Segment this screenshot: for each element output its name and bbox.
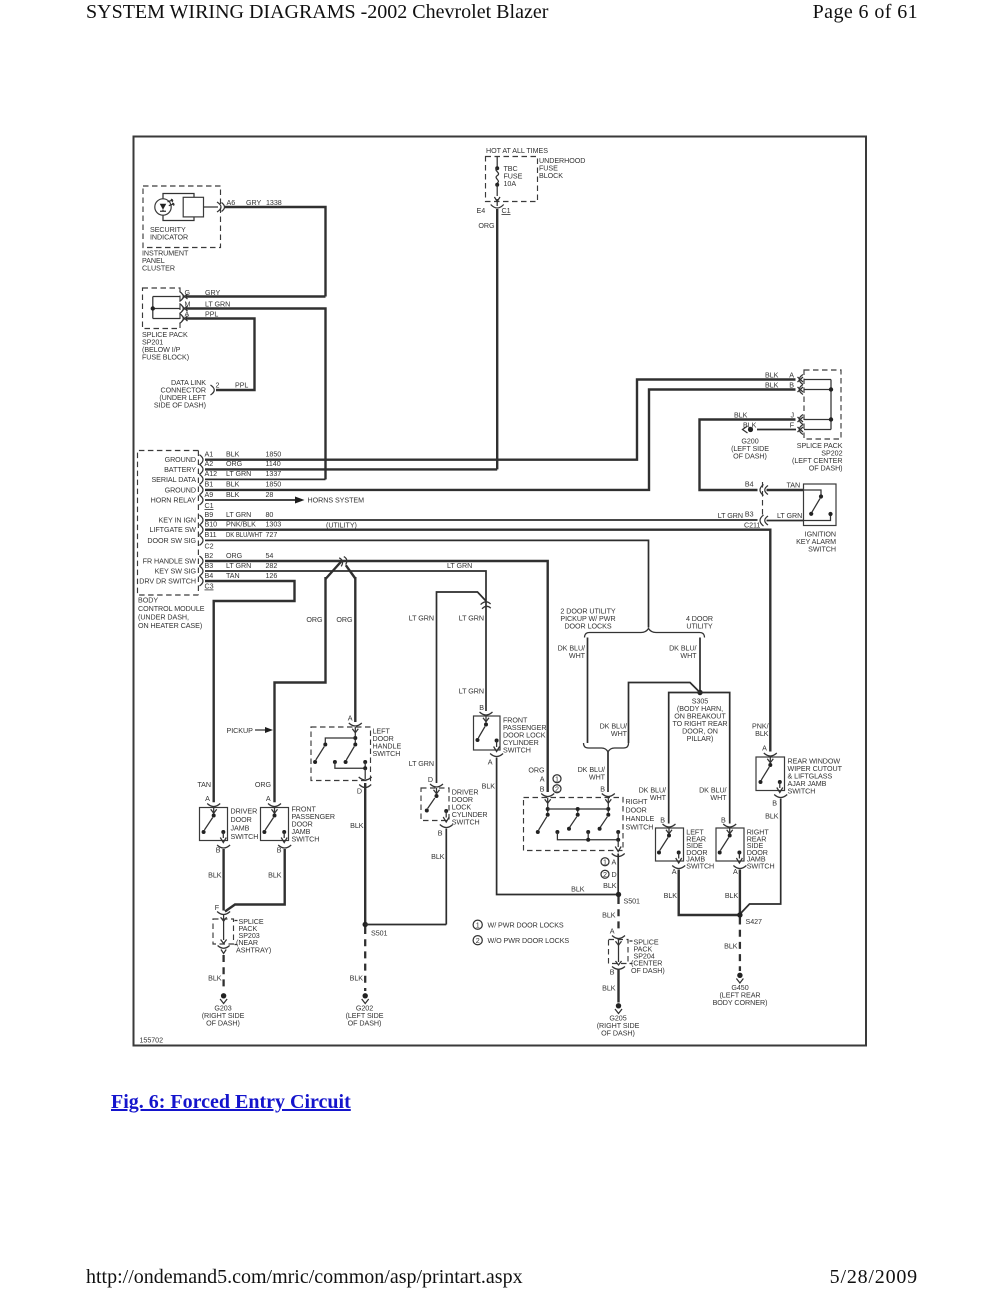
driver door lock cylinder switch pin D — [428, 776, 443, 794]
svg-text:OF DASH): OF DASH) — [348, 1019, 382, 1027]
S305 label — [672, 698, 727, 744]
svg-text:A: A — [205, 795, 210, 803]
BCM pin arc A9 — [200, 495, 204, 505]
svg-text:D: D — [612, 871, 617, 879]
svg-text:BLK: BLK — [765, 381, 779, 389]
svg-text:B3: B3 — [205, 562, 214, 570]
svg-text:BLK: BLK — [603, 882, 617, 890]
wire DK BLU/WHT S305 to right rear jamb — [700, 693, 730, 824]
wire label DK BLU/WHT 4-door — [669, 645, 697, 661]
front passenger door jamb switch label — [292, 806, 335, 844]
instrument panel cluster dashed box — [143, 186, 221, 248]
svg-text:B: B — [479, 704, 484, 712]
svg-text:727: 727 — [266, 531, 278, 539]
svg-text:SWITCH: SWITCH — [292, 836, 320, 844]
svg-text:W/O PWR DOOR LOCKS: W/O PWR DOOR LOCKS — [488, 937, 570, 945]
svg-text:A: A — [789, 371, 794, 379]
DLC pin 2 — [211, 381, 220, 395]
svg-text:TAN: TAN — [787, 482, 801, 490]
svg-text:PPL: PPL — [235, 381, 248, 389]
svg-text:BATTERY: BATTERY — [164, 466, 196, 474]
driver door lock cylinder switch dashed box — [421, 788, 449, 821]
svg-text:SWITCH: SWITCH — [686, 863, 714, 871]
wire TAN C211 to key alarm switch — [767, 489, 805, 491]
wire BLK S501 to G202 dashed — [364, 927, 366, 991]
wire BLK S501 to SP204 dashed — [617, 897, 619, 933]
wire DK BLU/WHT S305 to brace2 — [629, 683, 701, 744]
svg-text:B2: B2 — [205, 552, 214, 560]
left rear side door jamb label — [686, 829, 714, 871]
svg-text:2: 2 — [603, 871, 607, 879]
BCM pin arc A12 — [200, 474, 204, 484]
svg-text:KEY SW SIG: KEY SW SIG — [155, 568, 197, 576]
svg-text:A2: A2 — [205, 460, 214, 468]
rear window wiper cutout contacts — [759, 757, 783, 793]
svg-text:BLK: BLK — [482, 783, 496, 791]
svg-text:BLK: BLK — [208, 872, 222, 880]
BCM signal labels — [139, 456, 196, 585]
svg-text:A: A — [612, 859, 617, 867]
wire LT GRN B9 to C211 B3 — [205, 519, 758, 521]
svg-text:B10: B10 — [205, 521, 218, 529]
wire BLK left rear jamb A to S427 — [679, 870, 740, 916]
svg-text:D: D — [428, 776, 433, 784]
svg-text:A12: A12 — [205, 470, 218, 478]
splice pack SP203 dashed box — [213, 919, 234, 944]
splice symbol on B3 — [481, 602, 491, 609]
svg-text:B4: B4 — [745, 480, 754, 488]
connector pin A6 — [217, 202, 225, 212]
wire BLK A1 to SP202 A — [205, 380, 796, 460]
svg-text:1: 1 — [476, 921, 480, 929]
BCM pin arc A2 — [200, 464, 204, 474]
svg-text:1303: 1303 — [266, 521, 282, 529]
svg-text:BLK: BLK — [765, 813, 779, 821]
svg-text:M: M — [185, 300, 191, 308]
legend option 2 — [473, 936, 569, 945]
left door handle switch pin D — [357, 777, 372, 796]
svg-text:SWITCH: SWITCH — [626, 824, 654, 832]
wire ORG A2 row — [205, 468, 497, 470]
C211 pin B3 — [745, 510, 768, 526]
svg-text:PICKUP: PICKUP — [227, 727, 254, 735]
ground G200 — [743, 426, 754, 433]
left rear side door jamb pin A — [672, 866, 685, 877]
svg-text:ON HEATER CASE): ON HEATER CASE) — [138, 622, 202, 630]
rear window wiper cutout switch pin A — [762, 745, 777, 763]
splice pack SP204 label — [630, 939, 665, 976]
svg-text:A: A — [540, 776, 545, 784]
svg-text:LT GRN: LT GRN — [409, 760, 434, 768]
2 door utility label — [560, 608, 616, 631]
right door handle switch pin ORG arc — [541, 794, 554, 804]
svg-text:WHT: WHT — [589, 774, 606, 782]
svg-text:A: A — [266, 795, 271, 803]
svg-text:SIDE OF DASH): SIDE OF DASH) — [154, 402, 206, 410]
SP202 pin A — [789, 371, 803, 384]
security indicator LED — [155, 199, 174, 215]
front passenger door lock cylinder switch box — [474, 716, 501, 750]
svg-text:SWITCH: SWITCH — [452, 819, 480, 827]
wire LT GRN jog to driver lock cylinder — [437, 592, 487, 783]
front passenger lock cylinder label — [503, 717, 546, 755]
svg-text:54: 54 — [266, 552, 274, 560]
svg-text:FUSE BLOCK): FUSE BLOCK) — [142, 354, 189, 362]
splice S501 right — [616, 892, 640, 906]
left door handle switch pin A — [348, 715, 362, 733]
svg-text:PPL: PPL — [205, 310, 218, 318]
svg-text:LT GRN: LT GRN — [226, 562, 251, 570]
svg-text:BLK: BLK — [602, 912, 616, 920]
driver door jamb switch pin A — [205, 795, 220, 813]
svg-text:SWITCH: SWITCH — [231, 833, 259, 841]
splice pack SP203 label — [235, 918, 272, 955]
brace merge to right door handle — [584, 743, 629, 752]
body control module dashed box — [138, 451, 199, 596]
BCM circuit numbers — [266, 451, 282, 580]
pin label C1 underlined — [502, 207, 511, 215]
svg-text:RIGHT: RIGHT — [626, 798, 649, 806]
svg-text:DK BLU/WHT: DK BLU/WHT — [226, 531, 263, 539]
diagram frame — [134, 137, 867, 1046]
SP202 pin B — [789, 381, 803, 394]
svg-text:1338: 1338 — [266, 199, 282, 207]
right door handle switch label — [626, 798, 655, 832]
wire label DK BLU/WHT left rear — [639, 787, 667, 803]
svg-text:LT GRN: LT GRN — [777, 512, 802, 520]
wire LT GRN A12 row — [205, 478, 326, 480]
wire LT GRN B3 to front passenger lock cylinder — [205, 571, 486, 711]
driver door lock cylinder switch contacts — [425, 788, 449, 822]
ground G450 — [736, 973, 743, 983]
svg-text:HANDLE: HANDLE — [626, 815, 655, 823]
driver door jamb switch box — [200, 808, 228, 841]
wire BLK SP202 F to G200 — [757, 429, 796, 431]
svg-text:OF DASH): OF DASH) — [733, 453, 767, 461]
right door handle switch pin B arc — [600, 786, 615, 804]
ground G202 — [362, 993, 369, 1003]
svg-text:BLK: BLK — [350, 975, 364, 983]
svg-text:2: 2 — [216, 381, 220, 389]
BCM pin arc B9 — [200, 515, 204, 525]
right door handle switch pin D — [601, 854, 625, 880]
wire DK BLU/WHT S305 to left rear jamb — [669, 693, 700, 824]
svg-text:LT GRN: LT GRN — [447, 562, 472, 570]
svg-text:A: A — [762, 745, 767, 753]
svg-text:BLOCK: BLOCK — [539, 172, 563, 180]
svg-text:B: B — [772, 800, 777, 808]
right rear side door jamb switch box — [716, 828, 744, 861]
driver door jamb switch contacts — [202, 808, 227, 843]
svg-text:LT GRN: LT GRN — [226, 511, 251, 519]
svg-text:GROUND: GROUND — [165, 486, 196, 494]
wire to pin A6 — [204, 206, 219, 208]
svg-text:80: 80 — [266, 511, 274, 519]
svg-text:1850: 1850 — [266, 481, 282, 489]
wire label GRY 1338 — [246, 199, 282, 207]
svg-text:PNK/BLK: PNK/BLK — [226, 521, 256, 529]
svg-text:B: B — [540, 786, 545, 794]
svg-text:LT GRN: LT GRN — [459, 615, 484, 623]
BCM pin arc B11 — [200, 535, 204, 545]
svg-text:282: 282 — [266, 562, 278, 570]
BCM pin arc B1 — [200, 485, 204, 495]
driver door lock cylinder switch label — [452, 789, 488, 827]
svg-text:WHT: WHT — [611, 730, 628, 738]
svg-text:B: B — [721, 817, 726, 825]
svg-text:155702: 155702 — [140, 1037, 164, 1045]
svg-text:PILLAR): PILLAR) — [687, 735, 714, 743]
svg-text:BODY CORNER): BODY CORNER) — [713, 999, 768, 1007]
wire ORG branch to front passenger jamb switch — [275, 577, 326, 802]
wire DK BLU/WHT brace2 to right door handle B — [607, 752, 609, 792]
svg-text:WHT: WHT — [650, 794, 667, 802]
svg-text:SERIAL DATA: SERIAL DATA — [151, 476, 196, 484]
BCM pin arc B10 — [200, 525, 204, 535]
rear window wiper cutout switch box — [756, 757, 785, 791]
svg-text:BLK: BLK — [226, 491, 240, 499]
SP201 pin G — [180, 289, 191, 302]
svg-text:B: B — [216, 847, 221, 855]
brace split B11 — [585, 629, 705, 638]
svg-text:S501: S501 — [624, 898, 641, 906]
svg-text:ORG: ORG — [478, 222, 495, 230]
svg-text:10A: 10A — [504, 180, 517, 188]
svg-text:SWITCH: SWITCH — [747, 863, 775, 871]
wire BLK passenger jamb B to SP203 — [225, 849, 285, 912]
svg-text:ORG: ORG — [336, 616, 353, 624]
svg-text:2: 2 — [476, 937, 480, 945]
wire BLK SP204 to G205 — [617, 970, 619, 1003]
svg-text:OF DASH): OF DASH) — [206, 1019, 240, 1027]
svg-text:F: F — [215, 904, 220, 912]
wire BLK driver jamb B to SP203 — [222, 849, 224, 911]
wire ORG branch to left door handle switch — [354, 577, 356, 722]
SP202 pin J — [790, 411, 803, 424]
svg-text:B: B — [660, 817, 665, 825]
wire BLK S427 to G450 dashed — [739, 918, 741, 972]
svg-text:SWITCH: SWITCH — [373, 750, 401, 758]
driver door jamb switch label — [231, 808, 259, 842]
BCM right edge dashed — [197, 451, 199, 596]
svg-text:(UNDER DASH,: (UNDER DASH, — [138, 614, 189, 622]
front passenger door jamb switch pin B — [277, 845, 291, 855]
svg-text:DOOR LOCKS: DOOR LOCKS — [564, 623, 611, 631]
svg-text:B1: B1 — [205, 481, 214, 489]
ground G205 — [615, 1003, 622, 1013]
wire PPL SP201 A to DLC pin 2 — [186, 319, 255, 391]
wire BLK driver lock cylinder B to S501 — [445, 829, 447, 925]
svg-text:A: A — [733, 868, 738, 876]
svg-text:W/ PWR DOOR LOCKS: W/ PWR DOOR LOCKS — [488, 922, 564, 930]
svg-text:SWITCH: SWITCH — [503, 747, 531, 755]
wire BLK A9 horn relay — [205, 499, 295, 501]
wire label DK BLU/WHT right rear — [699, 787, 727, 803]
wire PNK/BLK B10 to wiper cutout switch — [205, 530, 770, 752]
left rear side door jamb contacts — [657, 828, 682, 863]
svg-text:LT GRN: LT GRN — [459, 688, 484, 696]
legend option 1 — [473, 920, 564, 929]
svg-text:C1: C1 — [502, 207, 511, 215]
svg-text:SWITCH: SWITCH — [788, 788, 816, 796]
svg-text:ASHTRAY): ASHTRAY) — [236, 947, 271, 955]
svg-text:C1: C1 — [205, 502, 214, 510]
svg-text:28: 28 — [266, 491, 274, 499]
BCM connector group label C2 — [205, 542, 214, 550]
svg-text:J: J — [790, 411, 794, 419]
svg-text:ORG: ORG — [255, 781, 272, 789]
svg-text:B: B — [438, 830, 443, 838]
wire ORG B2 to right door handle switch — [205, 561, 548, 792]
svg-text:1: 1 — [555, 775, 559, 783]
svg-text:BLK: BLK — [226, 481, 240, 489]
svg-text:E4: E4 — [477, 207, 486, 215]
right rear side door jamb switch pin B — [721, 817, 736, 834]
svg-text:C211: C211 — [744, 521, 760, 529]
svg-text:F: F — [790, 421, 795, 429]
rear window wiper cutout pin B — [772, 795, 787, 808]
svg-text:FR HANDLE SW: FR HANDLE SW — [143, 558, 197, 566]
wire DK BLU/WHT B11 to brace — [205, 540, 649, 627]
svg-text:1140: 1140 — [266, 460, 281, 468]
wire label DK BLU/WHT to pin B — [578, 766, 606, 782]
right door handle switch internals — [536, 798, 621, 852]
svg-text:LT GRN: LT GRN — [409, 615, 434, 623]
svg-text:BLK: BLK — [725, 892, 739, 900]
svg-text:ORG: ORG — [306, 616, 323, 624]
svg-text:C2: C2 — [205, 542, 214, 550]
SP204 internal wire — [612, 940, 625, 969]
ignition key alarm switch contacts — [804, 490, 833, 521]
svg-text:B: B — [600, 786, 605, 794]
SP201 internal bus — [151, 297, 180, 319]
svg-text:B: B — [610, 969, 615, 977]
wire label DK BLU/WHT mid — [600, 723, 628, 739]
C211 label underlined — [744, 521, 760, 529]
BCM connector group label C3 underlined — [205, 582, 214, 590]
svg-text:BLK: BLK — [734, 411, 748, 419]
wire BLK left door handle D to S501 — [364, 783, 366, 925]
wire GRY A6 to SP201 G — [225, 207, 326, 297]
svg-text:ORG: ORG — [226, 552, 243, 560]
svg-text:B3: B3 — [745, 510, 754, 518]
svg-text:A: A — [672, 868, 677, 876]
svg-text:OF DASH): OF DASH) — [601, 1029, 635, 1037]
svg-text:BLK: BLK — [765, 371, 779, 379]
svg-text:A: A — [348, 715, 353, 723]
svg-text:KEY IN IGN: KEY IN IGN — [159, 517, 196, 525]
BCM pin labels — [205, 451, 218, 580]
svg-text:DRV DR SWITCH: DRV DR SWITCH — [139, 578, 196, 586]
svg-text:DOOR SW SIG: DOOR SW SIG — [147, 537, 196, 545]
horns system arrow — [295, 497, 305, 504]
front passenger lock cylinder contacts — [476, 716, 500, 752]
left rear side door jamb switch pin B — [660, 817, 675, 834]
svg-text:INDICATOR: INDICATOR — [150, 234, 188, 242]
svg-text:BODY: BODY — [138, 597, 158, 605]
wire BLK wiper cutout B to S427 — [741, 799, 781, 914]
svg-text:A6: A6 — [227, 199, 236, 207]
svg-text:LIFTGATE SW: LIFTGATE SW — [149, 526, 196, 534]
svg-text:(UTILITY): (UTILITY) — [326, 522, 357, 530]
svg-text:C3: C3 — [205, 582, 214, 590]
front passenger lock cylinder switch pin B — [479, 704, 492, 722]
fuse TBC 10A — [494, 157, 500, 207]
wire GRY SP201 G row — [186, 295, 326, 297]
svg-text:CONTROL MODULE: CONTROL MODULE — [138, 605, 205, 613]
svg-text:B9: B9 — [205, 511, 214, 519]
right door handle switch dashed box — [524, 798, 624, 851]
BCM pin arc A1 — [200, 455, 204, 465]
svg-text:JAMB: JAMB — [231, 825, 250, 833]
wire label DK BLU/WHT 2-door — [558, 645, 586, 661]
C211 pin B4 — [745, 480, 768, 495]
svg-text:TAN: TAN — [197, 781, 211, 789]
SP201 pin A — [180, 310, 190, 323]
svg-text:GRY: GRY — [246, 199, 261, 207]
svg-text:BLK: BLK — [208, 975, 222, 983]
ground G205 label — [597, 1014, 640, 1037]
splice pack SP202 label — [792, 442, 843, 473]
rear window wiper cutout label — [788, 758, 843, 796]
ignition key alarm switch box — [804, 484, 837, 526]
svg-text:B: B — [789, 381, 794, 389]
left door handle switch dashed box — [311, 727, 371, 781]
wire BLK SP203 to G203 dashed — [222, 955, 224, 991]
wire DK BLU/WHT 4-door branch to S305 — [699, 638, 701, 693]
svg-text:B: B — [277, 847, 282, 855]
body control module label — [138, 597, 205, 631]
svg-text:ORG: ORG — [528, 767, 545, 775]
svg-text:1850: 1850 — [266, 451, 282, 459]
svg-text:GROUND: GROUND — [165, 456, 196, 464]
svg-text:2: 2 — [555, 785, 559, 793]
svg-text:A: A — [185, 310, 190, 318]
front passenger door jamb switch pin A — [266, 795, 281, 813]
driver door lock cylinder switch pin B — [438, 825, 453, 838]
svg-text:A9: A9 — [205, 491, 214, 499]
svg-text:ORG: ORG — [226, 460, 243, 468]
4 door utility label — [686, 615, 713, 631]
svg-text:A1: A1 — [205, 451, 214, 459]
splice pack SP203 pin F — [215, 904, 230, 921]
svg-text:UTILITY: UTILITY — [686, 623, 713, 631]
svg-text:A: A — [488, 759, 493, 767]
svg-text:BLK: BLK — [602, 985, 616, 993]
svg-text:HOT AT ALL TIMES: HOT AT ALL TIMES — [486, 147, 548, 155]
BCM pin arc B3 — [200, 566, 204, 576]
svg-text:WHT: WHT — [680, 652, 697, 660]
wire BLK SP202 J to C211 B4 — [700, 420, 796, 491]
BCM connector group label C1 underlined — [205, 502, 214, 510]
svg-text:BLK: BLK — [664, 892, 678, 900]
splice pack SP201 dashed box — [143, 288, 181, 329]
SP201 pin M — [180, 300, 191, 313]
underhood fuse block box — [486, 157, 538, 202]
ground G203 — [220, 993, 227, 1003]
svg-text:BLK: BLK — [724, 943, 738, 951]
svg-text:BLK: BLK — [226, 451, 240, 459]
left door handle switch internals — [313, 727, 367, 779]
wire ORG fuse to BCM A2 — [478, 209, 497, 469]
svg-text:DRIVER: DRIVER — [231, 808, 258, 816]
left door handle switch label — [373, 728, 402, 759]
connector C211 dashed line — [762, 482, 764, 516]
pickup arrow label — [227, 727, 274, 735]
splice pack SP204 pin A — [610, 928, 625, 946]
svg-text:DOOR: DOOR — [231, 816, 252, 824]
svg-text:1: 1 — [603, 858, 607, 866]
